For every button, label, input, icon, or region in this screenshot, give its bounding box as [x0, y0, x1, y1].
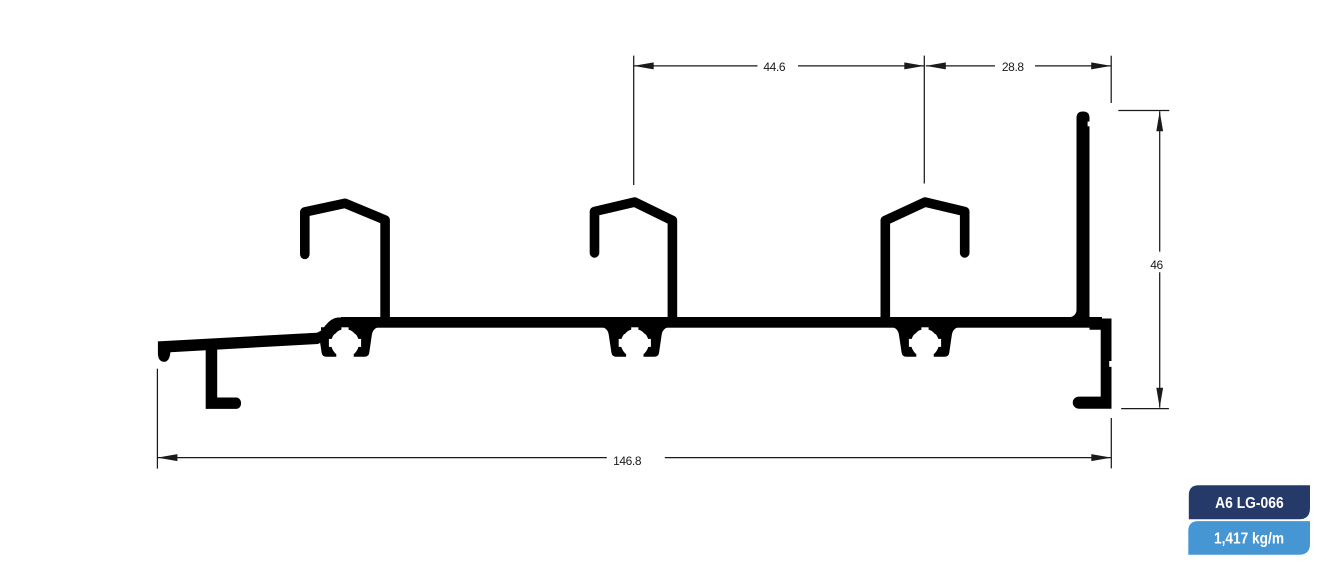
badge 1,417 kg/m — [1188, 521, 1310, 555]
right end bar and bottom foot — [1073, 319, 1112, 409]
svg-text:28.8: 28.8 — [1002, 60, 1024, 74]
badge A6 LG-066 — [1189, 485, 1310, 519]
left sloped flange with drip lip — [158, 318, 343, 362]
dimension 146.8 — [157, 369, 1111, 469]
right tall wall — [1077, 112, 1090, 321]
bar identification nick — [1109, 361, 1111, 367]
svg-text:A6 LG-066: A6 LG-066 — [1215, 495, 1284, 512]
wall-base fillet — [1070, 310, 1077, 318]
dimension 46 — [1118, 111, 1169, 409]
hook 1 — [305, 203, 385, 322]
wall identification nick — [1088, 122, 1090, 127]
svg-text:1,417 kg/m: 1,417 kg/m — [1214, 531, 1284, 548]
svg-text:44.6: 44.6 — [763, 60, 785, 74]
screw boss 1 — [313, 327, 378, 359]
base web of profile — [341, 317, 1102, 328]
dimension 44.6 — [634, 56, 925, 185]
svg-text:146.8: 146.8 — [613, 454, 642, 468]
hook 3 (mirrored) — [885, 202, 964, 322]
dimension 28.8 — [926, 56, 1111, 103]
left T-leg with foot — [206, 348, 241, 409]
screw boss 3 — [893, 327, 958, 359]
svg-text:46: 46 — [1150, 258, 1163, 272]
hook 2 — [595, 202, 673, 322]
screw boss 2 — [603, 327, 668, 359]
